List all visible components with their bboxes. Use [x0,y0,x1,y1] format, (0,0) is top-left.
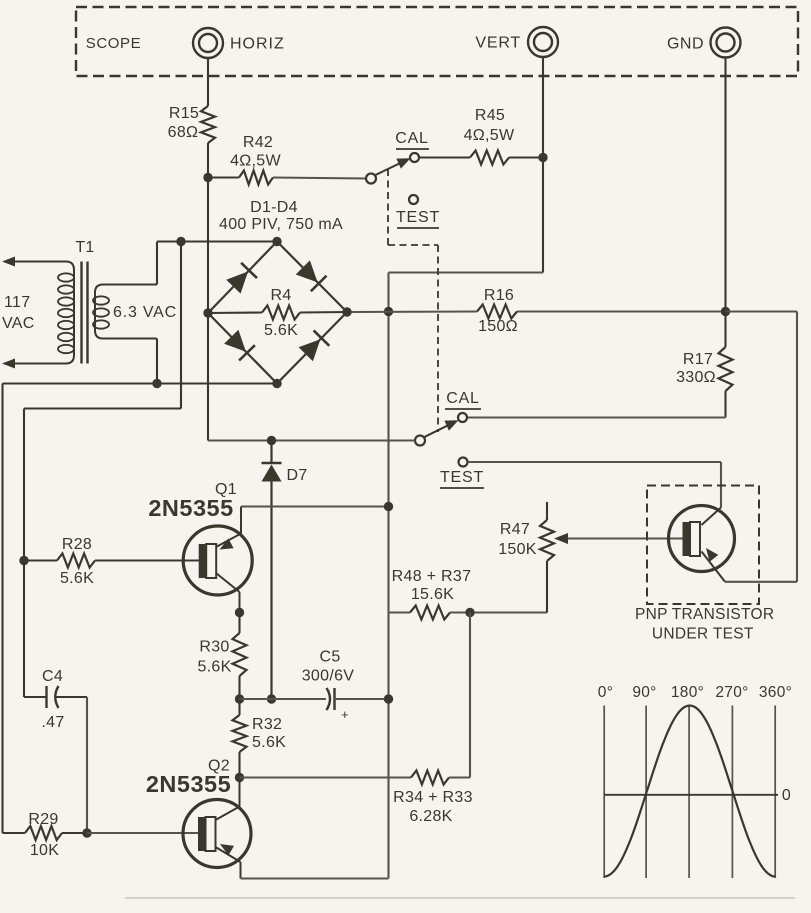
node junction Q1 collector [235,608,244,617]
svg-text:0°: 0° [598,684,613,701]
svg-text:270°: 270° [715,684,748,701]
svg-text:R48 + R37: R48 + R37 [392,568,472,585]
switch S1 TEST contact [409,195,418,204]
svg-text:2N5355: 2N5355 [146,771,231,797]
node junction R29/C4 [82,828,91,837]
svg-text:R42: R42 [243,134,273,151]
wire R28 left lead [24,559,57,561]
svg-text:GND: GND [667,36,704,53]
wire C4 left lead [24,696,47,698]
svg-text:.47: .47 [41,714,64,731]
svg-text:0: 0 [782,787,791,804]
wire C5 row left [240,698,327,700]
svg-text:R45: R45 [475,107,505,124]
svg-text:300/6V: 300/6V [302,668,355,685]
svg-text:10K: 10K [30,842,59,859]
transformer secondary loops [93,296,109,304]
graph sine curve [604,706,775,877]
switch S1 common contact [366,174,376,184]
svg-text:D7: D7 [286,467,307,484]
node bridge left vertex [203,308,212,317]
diode D1 (upper-left arm) [208,242,277,314]
wire bridge right to R16 [347,310,477,313]
arrow 117VAC bottom [2,359,15,369]
svg-text:CAL: CAL [446,390,480,407]
svg-text:150Ω: 150Ω [478,318,518,335]
switch S2 common contact [415,436,425,446]
diode D4 (lower-right arm) [277,312,347,384]
svg-text:R29: R29 [28,811,58,828]
arrow Q1 emitter (PNP) [220,539,234,550]
arrow R47 wiper [554,533,568,544]
wire R16 to GND lead [517,310,726,312]
svg-text:R34 + R33: R34 + R33 [393,789,473,806]
wire bridge left to switch S2 [207,313,209,441]
svg-text:5.6K: 5.6K [252,734,286,751]
arrow Q2 emitter (PNP) [220,844,234,855]
dashed switch linkage [387,169,389,245]
diode D3 (lower-left arm) [208,313,277,384]
node junction R28/left rail [19,556,28,565]
wire Q1 emitter [216,534,241,548]
resistor R42 [239,171,273,185]
resistor R29 [25,826,62,840]
node bridge top vertex [272,237,281,246]
svg-text:6.28K: 6.28K [409,808,452,825]
svg-text:TEST: TEST [396,209,440,226]
svg-text:+: + [341,707,349,722]
wire Q1 collector [216,573,240,592]
node junction secondary bottom [152,379,161,388]
switch S1 arm with arrow [375,161,405,175]
wire DUT emitter [702,552,726,582]
transformer primary loops [58,273,74,281]
svg-text:R16: R16 [484,287,514,304]
node junction C5/bus [384,694,393,703]
svg-text:15.6K: 15.6K [411,586,454,603]
transformer core [80,262,82,364]
node bridge bottom vertex [272,379,281,388]
svg-text:T1: T1 [75,239,94,256]
wire left rail inner [180,242,182,409]
terminal GND jack [711,28,741,58]
node junction D7/C5 row [267,694,276,703]
svg-text:PNP TRANSISTOR: PNP TRANSISTOR [635,606,774,623]
switch S1 CAL contact [410,153,419,162]
diode D2 (upper-right arm) [277,242,347,313]
wire R42 to switch common [273,178,366,179]
svg-text:400 PIV, 750 mA: 400 PIV, 750 mA [219,216,343,233]
wire R4 right lead [300,311,347,314]
transistor under test [669,506,735,572]
scope dashed enclosure box [76,7,798,76]
resistor R45 [470,151,509,165]
wire riser R48 to R34 [469,613,471,778]
wire R30 bottom lead [238,676,240,699]
svg-text:5.6K: 5.6K [197,659,231,676]
arrow DUT emitter (PNP) [706,548,718,562]
transistor Q2 [183,800,251,868]
resistor R30 [233,633,247,676]
wire R4 left lead [208,311,262,314]
svg-text:180°: 180° [671,684,704,701]
wire TEST to DUT collector [468,461,722,463]
resistor R15 [201,106,215,143]
wire R45 to VERT lead [509,156,543,158]
terminal HORIZ jack [193,28,223,58]
svg-text:SCOPE: SCOPE [86,35,142,52]
svg-text:R32: R32 [252,716,282,733]
graph vertical gridlines [603,706,605,879]
wire VERT lead down [542,58,544,273]
wire GND lead down [724,58,726,312]
svg-text:4Ω,5W: 4Ω,5W [464,127,515,144]
svg-text:HORIZ: HORIZ [230,36,285,53]
svg-text:VERT: VERT [475,35,521,52]
node junction R30/C5 row [235,694,244,703]
wire HORIZ lead down [207,58,209,106]
svg-text:330Ω: 330Ω [676,369,716,386]
svg-text:TEST: TEST [440,469,484,486]
node junction R42 tap [203,173,212,182]
diode D7 [270,441,272,464]
wire DUT collector [702,508,722,526]
wire C5 row right [335,698,389,700]
wire R47 bottom lead [546,561,548,613]
transistor Q1 [183,526,252,595]
graph zero axis [604,794,778,796]
wire R48 left lead [389,611,411,613]
switch S2 TEST contact [459,458,468,467]
resistor R48+R37 [410,606,450,620]
wire left rail outer [1,384,3,834]
node bridge right vertex [342,307,351,316]
svg-text:6.3 VAC: 6.3 VAC [113,304,177,321]
svg-text:90°: 90° [632,684,656,701]
wire R47 top lead [546,502,548,520]
node junction D7 top [267,436,276,445]
resistor R34+R33 [411,771,449,785]
resistor R4 [262,306,300,320]
node junction Q2 collector [235,773,244,782]
wire secondary bottom lead [156,339,158,384]
svg-text:R28: R28 [62,536,92,553]
wire Q2 emitter [216,847,241,862]
switch S2 arm with arrow [424,423,453,437]
svg-text:5.6K: 5.6K [60,570,94,587]
node junction secondary top [176,237,185,246]
terminal VERT jack [528,27,558,57]
resistor R47 potentiometer [540,520,554,561]
svg-text:C4: C4 [42,668,63,685]
svg-text:360°: 360° [759,684,792,701]
switch S2 CAL contact [458,413,467,422]
node junction bus/R16 [384,307,393,316]
transformer secondary winding outline [95,285,157,339]
wire R42 left lead [208,176,239,178]
wire R32 bottom lead [238,752,240,778]
wire to Q2 base [87,832,199,834]
wire VERT jog left [389,271,544,273]
wire right rail top [726,310,798,312]
wire R34 left lead [240,776,412,778]
svg-text:R15: R15 [169,105,199,122]
svg-text:VAC: VAC [2,315,35,332]
svg-text:2N5355: 2N5355 [148,495,233,521]
arrow 117VAC top [2,257,15,267]
wire R17 to CAL lower [724,391,726,418]
svg-text:R30: R30 [199,639,229,656]
svg-text:117: 117 [4,294,30,311]
node junction R48/R34 riser [465,608,474,617]
resistor R16 [477,305,517,319]
svg-text:UNDER TEST: UNDER TEST [652,626,754,643]
svg-text:150K: 150K [498,541,537,558]
svg-text:R4: R4 [270,287,291,304]
transformer primary winding outline [8,262,74,364]
node junction Q1 emitter/bus [384,502,393,511]
dashed box PNP transistor under test [647,486,759,605]
wire CAL to R45 [419,156,470,158]
wire main bus vertical [387,273,389,879]
svg-text:68Ω: 68Ω [168,124,199,141]
wire R32 top lead [238,699,240,715]
resistor R17 [719,347,733,391]
scan artifact faint line [125,897,795,899]
svg-text:R47: R47 [500,521,530,538]
resistor R28 [57,554,95,568]
node junction R45/VERT [538,153,547,162]
wire R17 top lead [724,312,726,348]
wire C4 right lead [55,696,87,698]
capacitor C4 [45,686,47,708]
wire R48 to R47 corner [450,611,547,613]
svg-text:4Ω,5W: 4Ω,5W [230,153,281,170]
resistor R32 [233,715,247,752]
wire R29 right lead [62,832,87,834]
wire R30 top lead [238,613,240,634]
svg-text:D1-D4: D1-D4 [250,199,298,216]
wire R34 right lead [449,776,470,778]
wire R29 left lead [3,832,26,834]
svg-text:R17: R17 [683,351,713,368]
wire Q2 collector [216,807,240,821]
svg-text:CAL: CAL [395,130,429,147]
svg-text:5.6K: 5.6K [264,322,298,339]
wire R15 to bridge left vertex [207,143,209,313]
svg-text:C5: C5 [319,649,340,666]
wire R28 to Q1 base [95,559,199,561]
node junction R16/GND/R17 [721,307,730,316]
capacitor C5 [327,688,331,710]
wire secondary top lead [156,242,158,285]
